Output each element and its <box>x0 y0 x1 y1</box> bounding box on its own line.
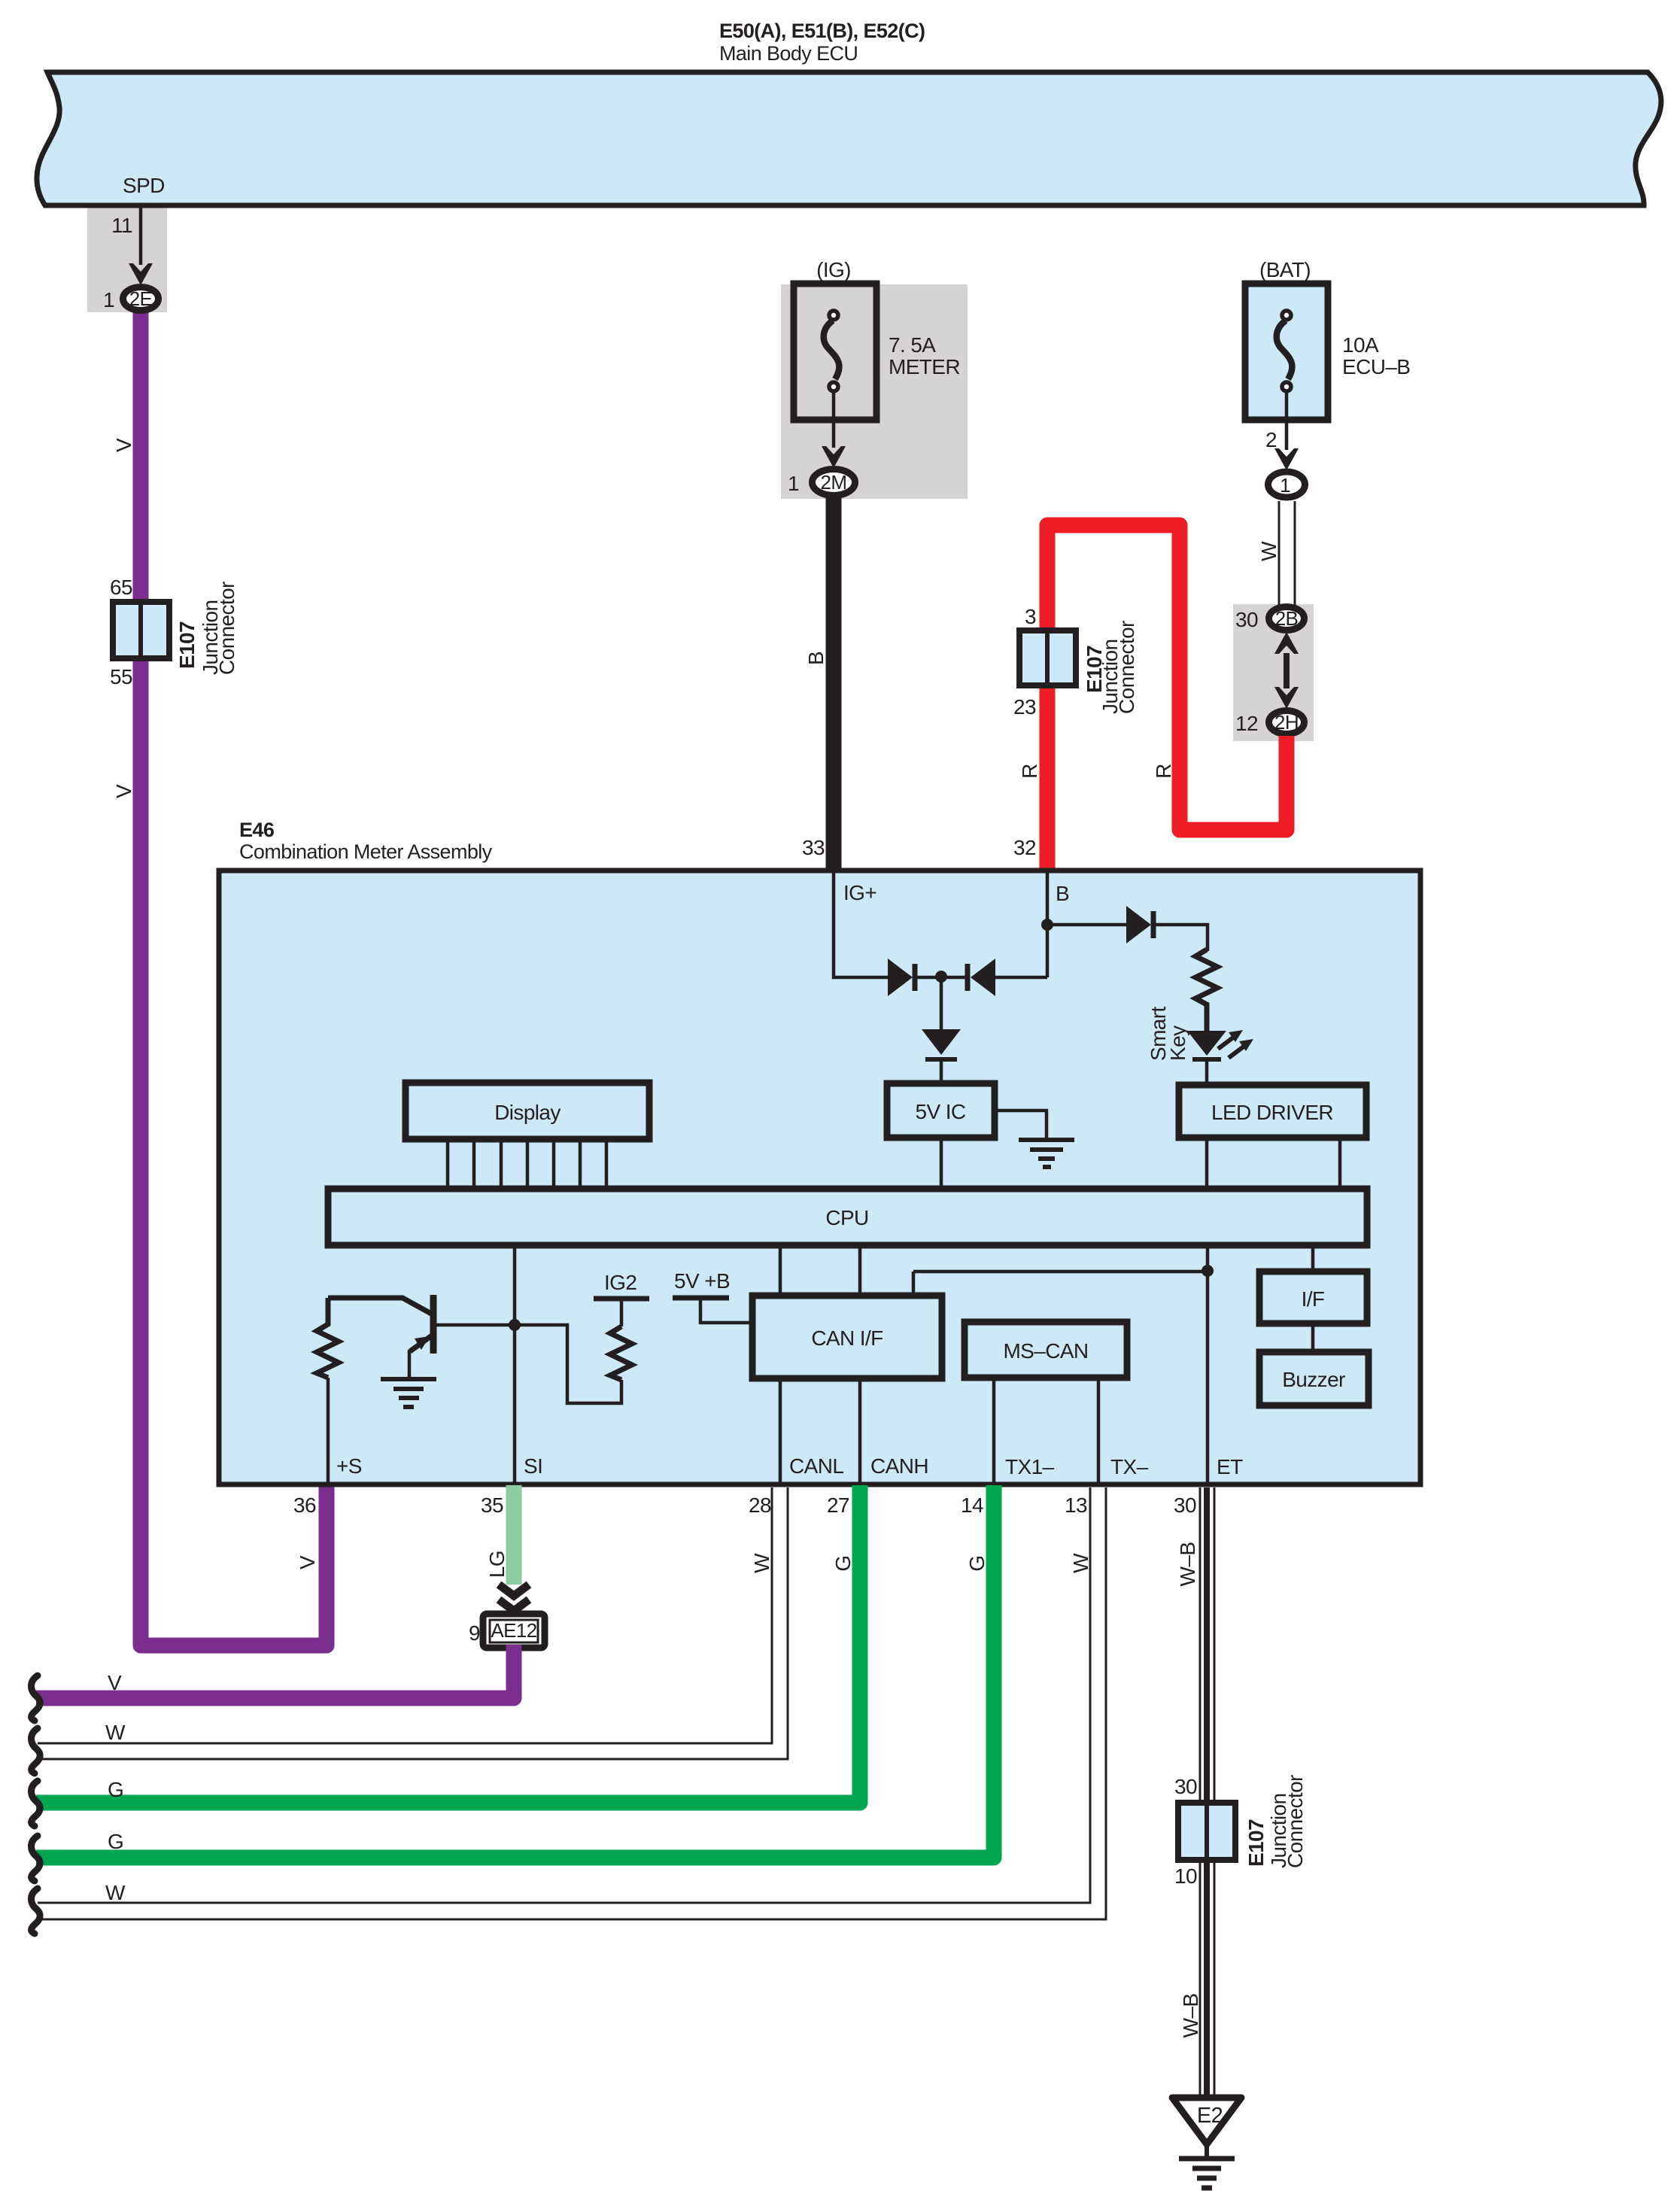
svg-text:CANH: CANH <box>870 1454 928 1478</box>
svg-text:CANL: CANL <box>789 1454 843 1478</box>
svg-text:12: 12 <box>1235 712 1258 735</box>
svg-text:W: W <box>105 1881 126 1904</box>
svg-text:E50(A), E51(B), E52(C): E50(A), E51(B), E52(C) <box>719 20 925 42</box>
gray zone fuse IG <box>781 284 968 499</box>
svg-text:E46: E46 <box>239 819 275 841</box>
LED smart key <box>1187 1030 1253 1085</box>
junction connector E107 middle <box>1013 605 1138 719</box>
svg-text:23: 23 <box>1013 695 1036 719</box>
break squiggle G2 <box>32 1836 41 1881</box>
svg-text:W: W <box>1069 1553 1092 1573</box>
svg-text:SI: SI <box>524 1454 542 1478</box>
svg-text:TX–: TX– <box>1110 1455 1149 1478</box>
svg-text:35: 35 <box>481 1493 503 1517</box>
wire G from pin 14 <box>36 1485 994 1858</box>
connector oval 2E <box>103 287 158 312</box>
svg-text:V: V <box>108 1671 122 1694</box>
break squiggle G1 <box>32 1781 41 1826</box>
svg-text:ECU–B: ECU–B <box>1342 355 1410 378</box>
box Display <box>406 1083 649 1139</box>
svg-text:32: 32 <box>1013 836 1036 859</box>
svg-text:1: 1 <box>788 472 799 495</box>
transistor Q1 <box>328 1295 433 1378</box>
node diode junction <box>935 971 947 983</box>
svg-text:SPD: SPD <box>123 174 165 197</box>
svg-text:(IG): (IG) <box>816 258 851 281</box>
svg-text:2E: 2E <box>129 287 153 310</box>
arrow into 2M <box>822 446 846 468</box>
svg-text:W: W <box>1257 541 1281 561</box>
svg-text:B: B <box>1056 882 1069 905</box>
svg-text:Connector: Connector <box>1115 621 1138 714</box>
diode D1 <box>888 959 941 996</box>
wire V purple from 2E to pin 36 <box>141 310 327 1645</box>
combination meter assembly box E46 <box>219 819 1420 1484</box>
break squiggle W1 <box>32 1728 41 1773</box>
svg-text:Display: Display <box>494 1101 561 1124</box>
svg-text:ET: ET <box>1217 1455 1243 1478</box>
diode D4 right <box>1126 906 1208 951</box>
power tap 5V+B <box>673 1298 752 1323</box>
svg-text:(BAT): (BAT) <box>1259 258 1311 281</box>
diode D2 <box>941 959 995 996</box>
svg-text:27: 27 <box>827 1493 849 1517</box>
svg-text:V: V <box>112 784 135 798</box>
svg-text:B: B <box>804 652 828 665</box>
junction connector E107 bottom <box>1174 1775 1307 1888</box>
svg-text:2: 2 <box>1265 428 1277 451</box>
node ET <box>1202 1265 1214 1277</box>
svg-text:W: W <box>750 1553 773 1573</box>
wire W white double <box>1279 501 1295 606</box>
svg-text:Buzzer: Buzzer <box>1282 1368 1345 1391</box>
wires TX1- TX- <box>994 1378 1098 1484</box>
arrow into oval 1 <box>1274 448 1299 470</box>
svg-text:Main Body ECU: Main Body ECU <box>719 42 858 65</box>
svg-text:13: 13 <box>1065 1493 1087 1517</box>
svg-text:V: V <box>296 1555 319 1569</box>
wire IG2 to SI <box>519 1325 621 1403</box>
node SI <box>509 1319 521 1331</box>
svg-text:MS–CAN: MS–CAN <box>1003 1339 1088 1363</box>
bus display to CPU <box>448 1139 606 1189</box>
svg-text:Key: Key <box>1166 1025 1189 1061</box>
box CPU <box>328 1189 1367 1245</box>
svg-text:Connector: Connector <box>215 582 238 675</box>
wire fuse IG to 2M <box>832 391 836 448</box>
svg-text:TX1–: TX1– <box>1005 1455 1055 1478</box>
svg-text:CPU: CPU <box>825 1206 868 1229</box>
ground E2 <box>1172 2098 1241 2188</box>
connector oval 1 <box>1268 472 1305 497</box>
svg-text:G: G <box>965 1555 989 1571</box>
wire W-B from pin 30 <box>1200 1487 1214 2096</box>
wire 5VIC to CPU <box>940 1138 943 1189</box>
svg-text:7. 5A: 7. 5A <box>889 333 936 357</box>
svg-text:V: V <box>112 438 135 452</box>
svg-text:55: 55 <box>110 665 132 688</box>
svg-text:W: W <box>105 1721 126 1744</box>
arrow chevrons into AE12 <box>499 1585 529 1611</box>
wire +S to pin 36 <box>327 1378 330 1484</box>
wire W from pin 13 <box>38 1487 1106 1919</box>
Main Body ECU band <box>37 72 1661 205</box>
svg-text:3: 3 <box>1025 605 1036 628</box>
svg-text:I/F: I/F <box>1302 1287 1325 1311</box>
wire B internal <box>995 871 1128 977</box>
svg-text:E107: E107 <box>1244 1819 1268 1867</box>
wires CPU to CAN I/F <box>780 1245 860 1296</box>
wire ET line <box>1206 1245 1210 1484</box>
svg-text:30: 30 <box>1174 1775 1197 1798</box>
break squiggle V <box>32 1676 41 1721</box>
svg-text:10A: 10A <box>1342 333 1379 357</box>
wire 5VIC to ground <box>995 1111 1047 1138</box>
fuse 10A ECU-B (BAT) <box>1245 258 1410 420</box>
break squiggle W2 <box>32 1888 41 1934</box>
resistor smart key <box>1195 950 1217 1031</box>
connector oval 2M <box>788 469 855 496</box>
gray zone connector 2E <box>87 206 167 312</box>
svg-text:+S: +S <box>336 1454 362 1478</box>
svg-text:2B: 2B <box>1275 607 1299 630</box>
svg-text:2M: 2M <box>821 471 847 494</box>
svg-text:AE12: AE12 <box>491 1619 536 1642</box>
svg-text:E2: E2 <box>1197 2104 1223 2128</box>
wires CANL CANH <box>780 1378 860 1484</box>
wire ET to CAN I/F <box>913 1272 1208 1296</box>
resistor IG2 <box>610 1326 632 1380</box>
svg-text:Combination Meter Assembly: Combination Meter Assembly <box>239 840 493 863</box>
svg-text:G: G <box>108 1778 123 1801</box>
wire SI line <box>513 1245 517 1484</box>
box CAN I/F <box>752 1296 942 1378</box>
arrow into 2E <box>129 263 153 285</box>
title Main Body ECU <box>719 20 925 65</box>
wire fuse BAT pin 2 <box>1285 391 1289 450</box>
fuse 7.5A METER (IG) <box>794 258 960 420</box>
svg-text:W–B: W–B <box>1176 1542 1199 1587</box>
pin labels bottom inside <box>336 1454 1243 1478</box>
svg-text:10: 10 <box>1174 1864 1197 1888</box>
ground 5VIC <box>1019 1140 1074 1167</box>
svg-text:LED DRIVER: LED DRIVER <box>1211 1101 1333 1124</box>
box Buzzer <box>1259 1352 1369 1405</box>
wires LED DRIVER to CPU <box>1207 1138 1340 1189</box>
svg-text:1: 1 <box>1280 474 1290 497</box>
svg-text:30: 30 <box>1235 608 1258 631</box>
box 5V IC <box>887 1083 995 1138</box>
wire G from pin 27 <box>36 1485 860 1803</box>
resistor +S <box>317 1298 339 1378</box>
double arrow 2B to 2H <box>1274 632 1299 709</box>
wire W from pin 28 <box>38 1487 788 1759</box>
svg-text:W–B: W–B <box>1179 1994 1202 2038</box>
box I/F <box>1259 1245 1367 1352</box>
gray zone connectors 2B 2H <box>1233 604 1314 741</box>
svg-text:11: 11 <box>111 214 132 237</box>
svg-text:30: 30 <box>1174 1493 1196 1517</box>
svg-text:Connector: Connector <box>1284 1775 1307 1868</box>
wire pin 11 stub <box>139 208 143 265</box>
svg-text:5V IC: 5V IC <box>915 1100 965 1123</box>
svg-text:5V +B: 5V +B <box>674 1269 730 1293</box>
pin numbers bottom <box>293 1493 1196 1517</box>
diode D3 down <box>922 977 961 1083</box>
svg-text:CAN I/F: CAN I/F <box>811 1326 883 1350</box>
ground transistor <box>381 1379 436 1407</box>
connector AE12 <box>469 1614 545 1648</box>
svg-text:E107: E107 <box>175 621 199 669</box>
wire IG+ internal <box>834 871 889 977</box>
svg-text:33: 33 <box>802 836 825 859</box>
svg-text:METER: METER <box>889 355 960 378</box>
wire base <box>433 1323 515 1327</box>
svg-text:9: 9 <box>469 1621 480 1645</box>
svg-text:LG: LG <box>485 1551 509 1578</box>
svg-text:28: 28 <box>749 1493 771 1517</box>
svg-text:G: G <box>108 1830 123 1853</box>
node B junction <box>1041 919 1053 931</box>
svg-text:1: 1 <box>103 288 114 311</box>
box LED DRIVER <box>1179 1085 1366 1138</box>
connector oval 2H <box>1235 711 1304 736</box>
svg-text:IG+: IG+ <box>843 881 876 904</box>
wire R red from 2H to pin 32 <box>1047 525 1287 869</box>
wire B black to pin 33 <box>826 497 842 869</box>
svg-text:14: 14 <box>961 1493 983 1517</box>
wire V purple bottom run <box>36 1645 514 1698</box>
svg-text:36: 36 <box>293 1493 316 1517</box>
svg-text:2H: 2H <box>1274 711 1299 734</box>
connector oval 2B <box>1235 607 1304 632</box>
svg-text:R: R <box>1018 764 1041 779</box>
svg-text:IG2: IG2 <box>604 1271 636 1294</box>
junction connector E107 left <box>110 576 238 688</box>
svg-text:G: G <box>831 1555 855 1571</box>
power tap IG2 <box>594 1299 649 1326</box>
wire LG from pin 35 <box>506 1485 522 1585</box>
box MS-CAN <box>965 1322 1127 1378</box>
svg-text:R: R <box>1152 764 1175 779</box>
svg-text:65: 65 <box>110 576 132 599</box>
